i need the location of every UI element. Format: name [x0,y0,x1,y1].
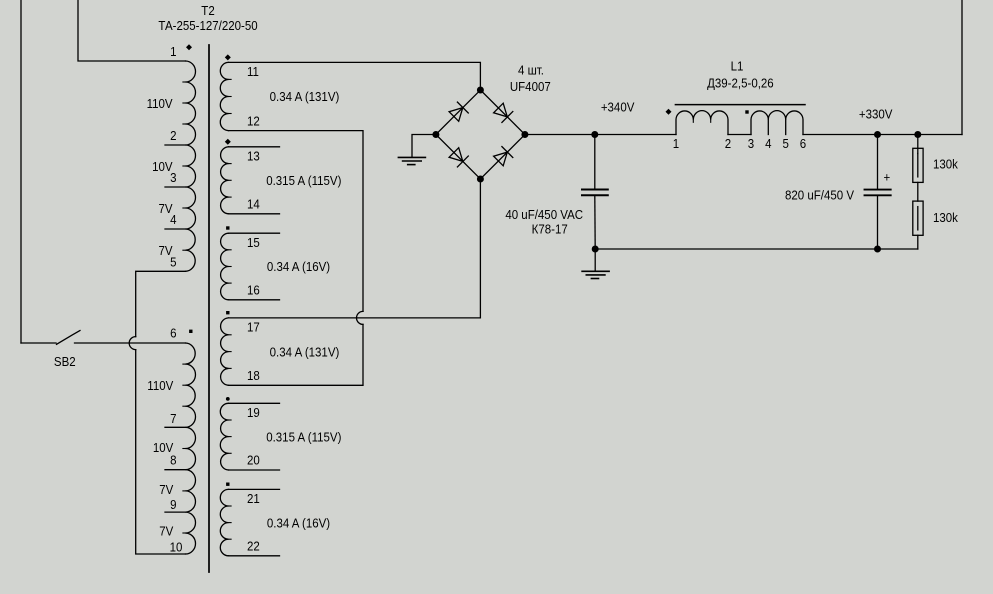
pin 2 tap stub [165,144,186,146]
label 7V winding2 [159,482,174,497]
svg-text:4 шт.: 4 шт. [518,63,544,78]
svg-text:12: 12 [247,114,260,129]
wire stub [229,146,280,148]
wire SB2 to pin 6 [75,342,186,344]
svg-text:16: 16 [247,283,260,298]
svg-text:15: 15 [247,235,260,250]
svg-text:0.34 A (16V): 0.34 A (16V) [267,260,330,275]
label 820 uF/450 V [785,188,855,203]
label L1 pin 1 [673,136,680,151]
bridge wire left-bottom [436,135,481,180]
transformer T2 primary winding 1-5 [186,61,196,271]
wire pin 5 exit [136,271,186,336]
node bridge top [477,87,484,94]
svg-text:0.34 A (131V): 0.34 A (131V) [270,90,340,105]
svg-text:+340V: +340V [601,100,635,115]
inductor L1 pin 5 lead [785,120,787,135]
svg-text:7: 7 [170,411,177,426]
wire stub [229,469,280,471]
winding cusp pips 21-22 [229,506,232,539]
pin label 2 [170,128,177,143]
wire C2 to bottom rail [877,196,879,249]
label L1 pin 5 [783,136,790,151]
transformer T2 primary winding 6-10 [186,343,196,554]
polarity dot L1 pin 3 [745,110,748,113]
inductor L1 coil1 cusp pips [693,120,710,123]
svg-text:110V: 110V [147,96,174,111]
wire pin5-pin10 bypass lower [136,350,186,554]
pin 4 tap stub [165,228,186,230]
pin label 21 [247,491,260,506]
node C2 bottom [874,246,881,253]
polarity dot pin 19 [226,397,230,401]
inductor L1 core bar [675,104,805,106]
transformer T2 secondary winding 19-20 [220,403,228,470]
label 4 шт. [518,63,544,78]
label SB2 [54,354,76,369]
resistor R1 [913,148,923,182]
winding cusp pips 11-12 [229,79,232,113]
svg-text:К78-17: К78-17 [532,222,568,237]
wire hop over SB2 wire [129,337,136,350]
transformer T2 secondary winding 21-22 [220,489,228,555]
winding cusp pips 1-5 [183,82,186,250]
node bridge right [521,131,528,138]
node bridge bottom [477,176,484,183]
wire bridge to L1 [525,134,676,136]
svg-text:+: + [883,170,890,185]
pin 7 tap stub [165,426,186,428]
pin label 16 [247,283,260,298]
winding cusp pips 15-16 [229,250,232,283]
wire stub [229,555,280,557]
svg-text:21: 21 [247,491,260,506]
label L1 pin 2 [725,136,732,151]
winding cusp pips 17-18 [229,335,232,369]
bridge wire left-top [436,90,481,135]
svg-text:10: 10 [170,540,183,555]
pin label 14 [247,197,260,212]
svg-text:4: 4 [765,136,772,151]
pin 3 tap stub [165,186,186,188]
label L1 [731,59,744,74]
label 0.34 A (16V) [267,516,330,531]
label 0.315 A (115V) [266,173,341,188]
wire R1-R2 [917,182,919,201]
diode VD4 bottom-right [494,147,513,166]
wire stub [229,213,280,215]
label T2 [201,3,215,18]
label TA-255-127/220-50 [158,18,257,33]
label 110V winding2 [147,378,174,393]
label UF4007 [510,79,551,94]
svg-text:1: 1 [170,44,177,59]
svg-text:3: 3 [748,136,755,151]
svg-text:40 uF/450 VAC: 40 uF/450 VAC [505,207,583,222]
pin label 19 [247,405,260,420]
bridge wire bottom-right [480,135,525,180]
wire node to C1 [594,135,596,189]
wire pin 12 to pin 18 upper [229,131,364,312]
ground symbol 2 [582,271,609,278]
transformer T2 secondary winding 11-12 [220,62,228,130]
label 0.34 A (131V) [270,90,340,105]
label 110V winding1 [147,96,174,111]
svg-text:0.315 A (115V): 0.315 A (115V) [266,173,341,188]
svg-text:2: 2 [170,128,177,143]
svg-text:130k: 130k [933,157,959,172]
pin label 11 [247,64,259,79]
wire pin 11 to bridge top [229,62,481,86]
node C2 top [874,131,881,138]
wire pin 17 to bridge bottom [229,183,481,318]
svg-text:UF4007: UF4007 [510,79,551,94]
svg-text:110V: 110V [147,378,174,393]
svg-text:10V: 10V [153,441,174,456]
transformer T2 secondary winding 13-14 [221,147,229,214]
node bridge left [432,131,439,138]
label L1 pin 3 [748,136,755,151]
wire bridge left to ground [412,135,436,158]
polarity dot L1 pin 1 [666,109,672,115]
diode VD2 top-right [494,103,513,122]
wire L1 to right [803,134,962,136]
polarity dot pin 1 [186,44,192,50]
svg-text:14: 14 [247,197,260,212]
svg-text:9: 9 [170,497,177,512]
ground symbol 1 [398,157,425,164]
label 10V winding2 [153,441,174,456]
inductor L1 coil 3-6 [751,111,803,135]
capacitor C2 plate bottom [865,194,891,196]
node R divider top [914,131,921,138]
svg-text:5: 5 [783,136,790,151]
winding cusp pips 19-20 [229,420,232,453]
pin label 9 [170,497,177,512]
pin label 4 [170,212,177,227]
wire rail up right edge [961,0,963,135]
svg-text:7V: 7V [159,524,174,539]
transformer T2 secondary winding 15-16 [221,233,229,300]
svg-text:7V: 7V [159,244,174,259]
svg-text:L1: L1 [731,59,744,74]
label 7V winding2 [159,524,174,539]
svg-text:7V: 7V [159,482,174,497]
pin label 3 [170,170,177,185]
label L1 pin 4 [765,136,772,151]
wire rail to C2 [877,135,879,189]
polarity dot pin 15 [226,226,229,229]
svg-text:13: 13 [247,149,260,164]
pin label 10 [170,540,183,555]
pin label 12 [247,114,260,129]
label 0.34 A (131V) [270,345,340,360]
svg-text:0.315 A (115V): 0.315 A (115V) [266,430,341,445]
svg-text:+330V: +330V [859,107,893,122]
svg-text:19: 19 [247,405,260,420]
pin label 13 [247,149,260,164]
svg-text:22: 22 [247,539,260,554]
label 40 uF/450 VAC [505,207,583,222]
resistor R1 inner lead [917,154,919,177]
pin label 7 [170,411,177,426]
wire stub [229,232,280,234]
resistor R2 inner lead [917,207,919,230]
svg-text:10V: 10V [152,159,173,174]
pin label 15 [247,235,260,250]
pin label 17 [247,320,260,335]
pin label 20 [247,453,260,468]
label 10V winding1 [152,159,173,174]
bridge wire top-right [480,90,525,135]
label Д39-2,5-0,26 [707,76,774,91]
svg-text:ТА-255-127/220-50: ТА-255-127/220-50 [158,18,257,33]
pin 9 tap stub [165,511,186,513]
wire hop over pin17 wire [357,311,363,324]
wire mains feed left [20,0,22,343]
winding cusp pips 13-14 [229,164,232,198]
svg-text:2: 2 [725,136,732,151]
svg-text:0.34 A (131V): 0.34 A (131V) [270,345,340,360]
polarity dot pin 6 [189,330,192,333]
inductor L1 pin 4 lead [767,120,769,135]
svg-text:18: 18 [247,368,260,383]
svg-text:20: 20 [247,453,260,468]
label 130k R2 [933,210,959,225]
winding cusp pips 6-10 [183,364,186,533]
polarity dot pin 21 [226,483,229,486]
wire bottom rail [595,248,918,250]
wire pin 12 to pin 18 lower [229,324,364,385]
label L1 pin 6 [800,136,807,151]
svg-text:820 uF/450 V: 820 uF/450 V [785,188,855,203]
inductor L1 coil 1-2 [676,111,728,135]
svg-text:6: 6 [170,326,177,341]
node bottom rail left [592,246,599,253]
polarity dot pin 11 [225,54,231,60]
wire stub [229,299,280,301]
label 130k R1 [933,157,959,172]
node +340V [591,131,598,138]
wire mains feed second [78,0,186,61]
svg-text:130k: 130k [933,210,959,225]
svg-text:7V: 7V [159,201,174,216]
svg-text:11: 11 [247,64,259,79]
switch SB2 blade [57,331,81,345]
wire SB2 left segment [21,342,56,344]
diode VD1 left-top [449,102,468,121]
polarity dot pin 17 [226,311,229,314]
pin label 8 [170,453,177,468]
svg-text:17: 17 [247,320,260,335]
wire R1 lead [917,135,919,154]
label +340V [601,100,635,115]
transformer T2 secondary winding 17-18 [221,318,229,385]
pin label 1 [170,44,177,59]
pin label 6 [170,326,177,341]
pin label 22 [247,539,260,554]
label 7V winding1 [159,201,174,216]
resistor R2 [913,201,923,235]
polarity dot pin 13 [225,139,231,145]
label 0.315 A (115V) [266,430,341,445]
pin label 18 [247,368,260,383]
wire stub [229,488,280,490]
label 0.34 A (16V) [267,260,330,275]
transformer core [208,45,210,572]
svg-text:Д39-2,5-0,26: Д39-2,5-0,26 [707,76,774,91]
capacitor C2 plate top [865,189,891,191]
svg-text:6: 6 [800,136,807,151]
label + polarity C2 [883,170,890,185]
wire stub [229,402,280,404]
wire to ground 2 [594,249,596,271]
pin 8 tap stub [165,469,186,471]
pin label 5 [170,255,177,270]
svg-text:SB2: SB2 [54,354,76,369]
diode VD3 left-bottom [449,148,468,167]
label 7V winding1 [159,244,174,259]
label К78-17 [532,222,568,237]
svg-text:1: 1 [673,136,680,151]
label +330V [859,107,893,122]
capacitor C1 plate bottom [582,194,608,196]
wire L1 pin2-pin3 [728,134,751,136]
wire C1 to bottom rail [594,196,596,249]
svg-text:T2: T2 [201,3,215,18]
capacitor C1 plate top [582,189,608,191]
svg-text:0.34 A (16V): 0.34 A (16V) [267,516,330,531]
wire R2 to bottom rail [917,235,919,249]
